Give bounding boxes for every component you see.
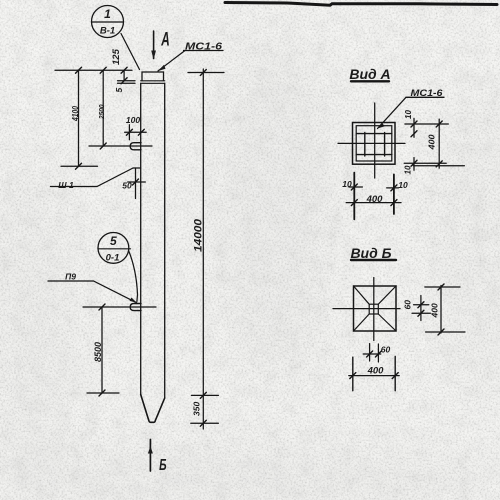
pile body left edge — [140, 83, 142, 394]
dim 400 bottom (view A) — [346, 202, 401, 204]
svg-text:10: 10 — [398, 180, 408, 190]
svg-text:А: А — [160, 30, 169, 50]
pin mark and 50 dimension — [133, 167, 141, 169]
svg-text:350: 350 — [192, 402, 202, 416]
svg-text:8500: 8500 — [93, 342, 103, 362]
view B centerlines — [373, 278, 375, 341]
svg-text:2500: 2500 — [97, 104, 106, 120]
svg-text:10: 10 — [342, 179, 352, 189]
svg-text:5: 5 — [114, 88, 124, 93]
dim 60 bottom (view B) — [369, 344, 371, 361]
pile taper to tip — [141, 395, 165, 423]
loop 1 axis line — [89, 145, 152, 147]
loop 2 axis line — [83, 306, 156, 308]
svg-text:Вид Б: Вид Б — [350, 245, 391, 261]
view A bottom extension lines — [353, 173, 355, 220]
ticks left dims — [76, 67, 82, 73]
svg-text:0-1: 0-1 — [106, 253, 120, 264]
dimension line 14000 — [202, 69, 204, 429]
left top extension line (pile top level) — [55, 69, 132, 71]
dimension line 125 — [123, 70, 125, 81]
section arrow A (down) — [153, 31, 155, 59]
view B outer square — [354, 286, 397, 331]
svg-text:400: 400 — [427, 134, 437, 150]
svg-text:60: 60 — [403, 300, 413, 310]
10 right bottom — [387, 187, 399, 189]
leader MS1-6 (main view) — [158, 51, 185, 72]
dim 10 top right — [413, 118, 415, 137]
view A right extension lines — [405, 123, 448, 125]
view B title underline — [351, 259, 396, 261]
leader P9 with arrow — [48, 281, 137, 303]
view B tip square — [369, 304, 378, 314]
dim 400 right (view A) — [438, 119, 440, 168]
view B pyramid diagonals — [354, 286, 370, 304]
lifting loop 1 — [130, 143, 141, 150]
svg-text:4100: 4100 — [71, 106, 80, 122]
dim 10 bottom right — [413, 158, 415, 171]
leader from circle 5 to loop 2 — [129, 251, 138, 302]
10 left bottom — [349, 186, 363, 188]
view A title underline — [351, 80, 389, 82]
svg-text:П9: П9 — [65, 272, 76, 282]
svg-text:Б: Б — [159, 456, 167, 474]
svg-text:Вид А: Вид А — [349, 66, 390, 82]
lifting loop 2 — [130, 304, 141, 311]
callout circle 1 (V-1) — [92, 6, 124, 38]
dimension line 2500 — [102, 70, 104, 146]
dimension line 4100 — [78, 70, 80, 166]
dimension 100: extension + line + ticks — [128, 125, 130, 140]
mesh bars — [364, 133, 366, 156]
top sheet border line — [225, 3, 497, 6]
MS1-6 label underline + leader (view A) — [406, 96, 444, 98]
svg-text:10: 10 — [404, 110, 413, 119]
svg-text:Ш 1: Ш 1 — [58, 180, 74, 190]
svg-text:125: 125 — [111, 48, 122, 65]
dim 60 right (view B) — [414, 304, 429, 306]
callout circle 5 (0-1) — [98, 233, 129, 264]
svg-text:10: 10 — [404, 165, 413, 174]
leader from circle 1 to pile top — [121, 34, 140, 70]
right extension line (pile top) — [188, 72, 224, 74]
view A inner square — [356, 126, 392, 161]
dim 400 bottom (view B) — [352, 357, 354, 391]
svg-text:400: 400 — [430, 303, 440, 318]
4100 bottom extension line — [61, 165, 98, 167]
svg-text:1: 1 — [104, 7, 111, 21]
svg-text:5: 5 — [110, 234, 117, 248]
svg-text:МС1-6: МС1-6 — [411, 88, 444, 98]
section arrow B (up) — [149, 440, 151, 472]
svg-text:400: 400 — [366, 194, 384, 205]
svg-text:100: 100 — [126, 115, 140, 125]
svg-text:50: 50 — [122, 181, 132, 191]
svg-text:400: 400 — [367, 366, 385, 377]
dimension 8500 — [101, 307, 103, 393]
dim 400 right (view B) — [425, 286, 460, 288]
350 extension lines — [191, 394, 218, 396]
pile head joint lines — [141, 80, 165, 82]
leader Sh1 — [51, 168, 134, 187]
svg-text:14000: 14000 — [193, 218, 205, 252]
extension line at cap joint level — [118, 80, 136, 82]
svg-text:В-1: В-1 — [100, 26, 115, 37]
svg-text:МС1-6: МС1-6 — [185, 41, 222, 53]
pile cap (head) — [142, 72, 164, 81]
pile body right edge — [164, 83, 166, 398]
view A centerlines — [374, 103, 376, 178]
svg-text:60: 60 — [381, 345, 391, 355]
view A outer square — [353, 123, 396, 165]
